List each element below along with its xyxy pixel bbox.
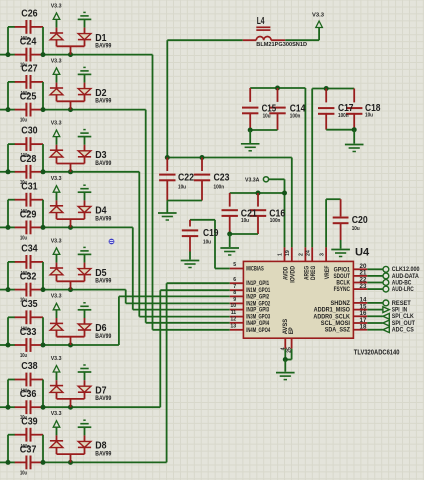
svg-text:SHDNZ: SHDNZ bbox=[331, 301, 351, 307]
svg-text:1: 1 bbox=[278, 253, 284, 256]
svg-text:AVDD: AVDD bbox=[283, 266, 289, 280]
svg-text:100n: 100n bbox=[214, 185, 225, 191]
svg-text:4: 4 bbox=[280, 347, 286, 350]
svg-text:IN1P_GPI1: IN1P_GPI1 bbox=[246, 281, 269, 287]
svg-text:10u: 10u bbox=[241, 218, 249, 224]
svg-text:BAV99: BAV99 bbox=[95, 450, 111, 457]
svg-text:10u: 10u bbox=[20, 470, 27, 476]
svg-text:BAV99: BAV99 bbox=[95, 278, 111, 285]
svg-text:V3.3: V3.3 bbox=[51, 411, 62, 417]
svg-text:C27: C27 bbox=[21, 64, 38, 75]
svg-text:C19: C19 bbox=[203, 228, 219, 239]
svg-text:10u: 10u bbox=[263, 113, 271, 119]
svg-text:11: 11 bbox=[231, 310, 237, 316]
svg-text:C39: C39 bbox=[21, 416, 38, 427]
svg-text:ADC_CS: ADC_CS bbox=[392, 327, 415, 334]
svg-text:C38: C38 bbox=[21, 361, 38, 372]
svg-text:9: 9 bbox=[233, 297, 236, 303]
svg-text:10u: 10u bbox=[20, 353, 27, 359]
svg-text:IN4M_GPO4: IN4M_GPO4 bbox=[246, 328, 270, 334]
svg-text:U4: U4 bbox=[355, 247, 370, 259]
svg-text:C31: C31 bbox=[21, 181, 38, 192]
svg-text:C34: C34 bbox=[21, 244, 38, 255]
svg-text:GPIO1: GPIO1 bbox=[334, 267, 351, 273]
svg-text:VREF: VREF bbox=[325, 265, 331, 279]
svg-text:12: 12 bbox=[230, 316, 236, 322]
svg-text:IN3P_GPI3: IN3P_GPI3 bbox=[246, 308, 269, 314]
svg-text:C25: C25 bbox=[20, 92, 37, 103]
svg-text:BAV99: BAV99 bbox=[95, 395, 111, 402]
svg-text:10: 10 bbox=[230, 303, 236, 309]
svg-text:FSYNC: FSYNC bbox=[334, 287, 351, 293]
svg-text:TLV320ADC6140: TLV320ADC6140 bbox=[354, 348, 400, 357]
svg-text:C29: C29 bbox=[20, 209, 37, 220]
svg-text:100n: 100n bbox=[290, 113, 301, 119]
svg-text:IN1M_GPO1: IN1M_GPO1 bbox=[246, 288, 270, 294]
svg-text:C28: C28 bbox=[20, 154, 37, 165]
svg-text:C36: C36 bbox=[20, 389, 37, 400]
svg-text:C32: C32 bbox=[20, 272, 37, 283]
svg-text:C35: C35 bbox=[21, 299, 38, 310]
svg-text:C26: C26 bbox=[21, 9, 38, 20]
svg-text:V3.3: V3.3 bbox=[51, 176, 62, 182]
svg-text:C20: C20 bbox=[352, 215, 368, 226]
svg-text:V3.3: V3.3 bbox=[51, 121, 62, 127]
svg-text:25: 25 bbox=[287, 347, 293, 353]
svg-text:AREG: AREG bbox=[304, 266, 310, 280]
svg-text:7: 7 bbox=[233, 284, 236, 290]
svg-text:IN3M_GPO3: IN3M_GPO3 bbox=[246, 315, 270, 321]
svg-text:BAV99: BAV99 bbox=[95, 43, 111, 50]
svg-text:SDOUT: SDOUT bbox=[334, 274, 351, 280]
svg-text:V3.3: V3.3 bbox=[51, 294, 62, 300]
svg-text:10u: 10u bbox=[352, 226, 360, 232]
svg-text:23: 23 bbox=[360, 283, 367, 290]
svg-text:V3.3: V3.3 bbox=[51, 3, 62, 9]
svg-text:19: 19 bbox=[285, 250, 291, 256]
svg-text:V3.3: V3.3 bbox=[312, 12, 324, 18]
svg-text:L4: L4 bbox=[257, 16, 265, 27]
svg-text:EP: EP bbox=[289, 327, 295, 334]
svg-text:C23: C23 bbox=[214, 172, 230, 183]
svg-text:5: 5 bbox=[233, 262, 236, 268]
svg-text:C22: C22 bbox=[178, 172, 194, 183]
svg-text:AUD-LRC: AUD-LRC bbox=[392, 286, 414, 293]
svg-text:MICBIAS: MICBIAS bbox=[246, 266, 264, 272]
svg-text:BAV99: BAV99 bbox=[95, 333, 111, 340]
svg-text:24: 24 bbox=[305, 250, 311, 256]
svg-text:10u: 10u bbox=[203, 240, 211, 246]
svg-text:10u: 10u bbox=[20, 235, 27, 241]
svg-text:100n: 100n bbox=[270, 218, 281, 224]
svg-text:10u: 10u bbox=[178, 185, 186, 191]
svg-text:IN2P_GPI2: IN2P_GPI2 bbox=[246, 294, 269, 300]
svg-text:C30: C30 bbox=[21, 126, 38, 137]
svg-text:C33: C33 bbox=[20, 327, 37, 338]
svg-text:10u: 10u bbox=[20, 118, 27, 124]
svg-text:SDA_SSZ: SDA_SSZ bbox=[325, 328, 351, 334]
svg-text:BAV99: BAV99 bbox=[95, 215, 111, 222]
svg-text:6: 6 bbox=[233, 277, 236, 283]
svg-text:2: 2 bbox=[299, 253, 305, 256]
svg-text:13: 13 bbox=[230, 323, 236, 329]
svg-text:DREG: DREG bbox=[311, 265, 317, 280]
svg-text:BAV99: BAV99 bbox=[95, 98, 111, 105]
svg-text:10u: 10u bbox=[365, 113, 373, 119]
svg-text:BLM21PG300SN1D: BLM21PG300SN1D bbox=[256, 42, 307, 48]
svg-text:IN2M_GPO2: IN2M_GPO2 bbox=[246, 301, 270, 307]
svg-text:C37: C37 bbox=[20, 444, 37, 455]
svg-text:IN4P_GPI4: IN4P_GPI4 bbox=[246, 321, 269, 327]
svg-text:V3.3: V3.3 bbox=[51, 58, 62, 64]
svg-text:V3.3: V3.3 bbox=[51, 238, 62, 244]
svg-text:8: 8 bbox=[233, 290, 236, 296]
svg-text:AVSS: AVSS bbox=[283, 319, 289, 335]
svg-text:BCLK: BCLK bbox=[336, 281, 350, 287]
svg-text:ADDR0_SCLK: ADDR0_SCLK bbox=[313, 314, 350, 320]
svg-text:ADDR1_MISO: ADDR1_MISO bbox=[314, 308, 351, 314]
svg-text:C24: C24 bbox=[20, 37, 37, 48]
svg-text:18: 18 bbox=[360, 324, 367, 331]
svg-text:100n: 100n bbox=[338, 113, 349, 119]
svg-text:V3.3: V3.3 bbox=[51, 356, 62, 362]
svg-text:SCL_MOSI: SCL_MOSI bbox=[321, 321, 351, 327]
svg-text:IOVDD: IOVDD bbox=[291, 265, 297, 283]
svg-text:V3.3A: V3.3A bbox=[245, 178, 259, 184]
svg-text:3: 3 bbox=[319, 253, 325, 256]
svg-text:BAV99: BAV99 bbox=[95, 160, 111, 167]
